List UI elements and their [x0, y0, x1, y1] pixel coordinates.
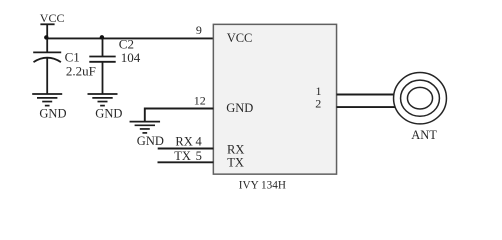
- svg-text:RX: RX: [175, 134, 192, 148]
- svg-text:IVY 134H: IVY 134H: [239, 180, 286, 192]
- svg-text:12: 12: [194, 94, 206, 108]
- wire TX: [158, 161, 214, 163]
- svg-text:TX: TX: [227, 156, 244, 170]
- svg-text:9: 9: [196, 23, 202, 37]
- svg-text:GND: GND: [137, 134, 164, 148]
- antenna ANT coil: [394, 73, 447, 124]
- wire pin 1 to antenna: [337, 94, 397, 96]
- svg-text:GND: GND: [39, 107, 66, 121]
- capacitor C2: [89, 38, 115, 94]
- svg-text:GND: GND: [95, 107, 122, 121]
- svg-text:TX: TX: [174, 149, 191, 163]
- IC U1 IVY 134H body: [213, 24, 336, 174]
- svg-text:5: 5: [196, 149, 202, 163]
- wire pin 2 to antenna: [337, 106, 397, 108]
- svg-text:VCC: VCC: [40, 11, 65, 25]
- svg-text:VCC: VCC: [227, 31, 253, 45]
- ground under C1: [32, 94, 62, 106]
- power flag VCC: [40, 24, 54, 38]
- wire pin 12 to ground: [145, 109, 214, 122]
- svg-text:ANT: ANT: [411, 128, 437, 142]
- ground at pin 12: [130, 122, 161, 133]
- wire RX: [158, 148, 214, 150]
- svg-text:2.2uF: 2.2uF: [66, 64, 96, 79]
- wire VCC rail to pin 9: [46, 37, 213, 39]
- junction at C2 tap: [100, 35, 104, 39]
- svg-text:4: 4: [196, 134, 203, 148]
- svg-text:2: 2: [315, 97, 321, 111]
- svg-text:C1: C1: [65, 49, 80, 64]
- svg-text:GND: GND: [226, 101, 253, 115]
- svg-text:104: 104: [121, 50, 141, 65]
- capacitor C1: [33, 38, 61, 94]
- svg-text:RX: RX: [227, 143, 244, 157]
- junction at C1 tap: [44, 35, 48, 39]
- ground under C2: [88, 94, 118, 106]
